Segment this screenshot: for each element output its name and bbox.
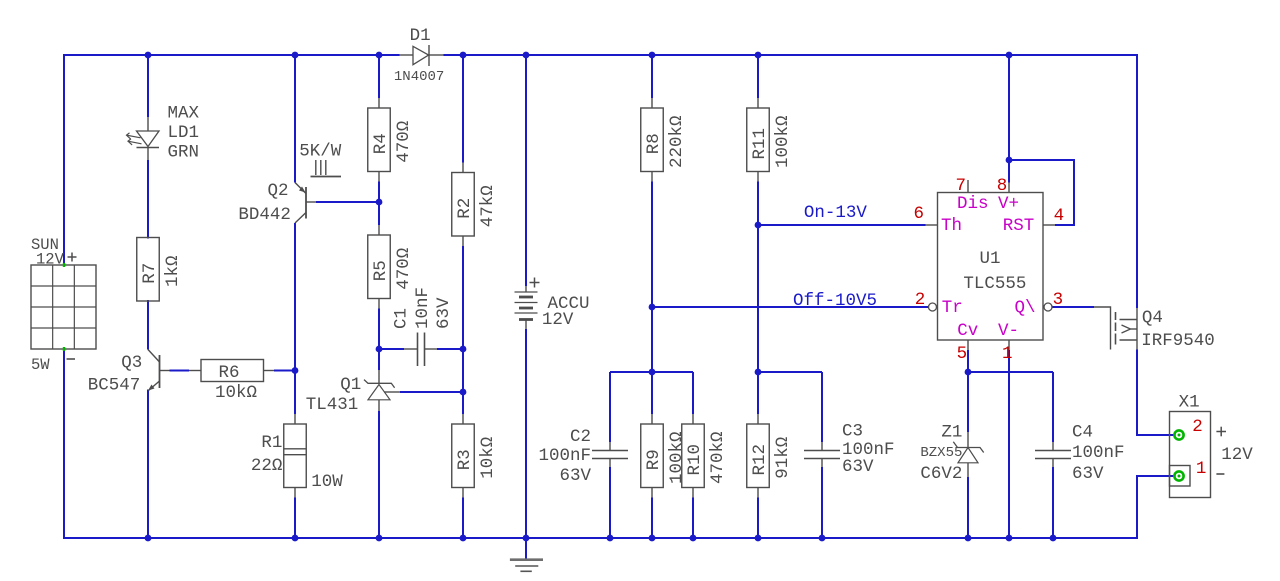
svg-text:Off-10V5: Off-10V5 [793, 291, 877, 311]
pin number 3 [1053, 290, 1064, 310]
svg-text:GRN: GRN [168, 143, 200, 163]
label LD1 [168, 123, 200, 143]
wire pin 3 to Q4 gate [1052, 306, 1094, 308]
svg-text:3: 3 [1053, 290, 1064, 310]
svg-text:Q3: Q3 [121, 353, 142, 373]
pin number 2 [915, 290, 926, 310]
svg-text:On-13V: On-13V [804, 203, 868, 223]
wire On node horizontal (R12-C3) [758, 371, 822, 373]
resistor R1 22R 10W [284, 424, 307, 488]
label 10kOhm (R6) [215, 383, 257, 403]
svg-text:100kΩ: 100kΩ [773, 115, 793, 168]
resistor R8 220k [641, 108, 687, 172]
resistor R6 10k [160, 360, 296, 382]
svg-text:47kΩ: 47kΩ [478, 185, 498, 227]
resistor R9 100k [641, 424, 687, 488]
svg-text:Tr: Tr [942, 298, 963, 318]
wire Q2 emitter from top rail [294, 55, 296, 183]
svg-text:R9: R9 [644, 449, 664, 470]
wire Z1 anode to ground rail [967, 463, 969, 538]
wire R4 to R5 / base node [378, 172, 380, 236]
svg-text:1: 1 [1002, 344, 1013, 364]
label - (panel) [67, 358, 76, 360]
svg-text:100nF: 100nF [538, 446, 591, 466]
wire On-13V net to pin 6 [758, 224, 938, 226]
label 100nF (C4) [1072, 443, 1125, 463]
wire right rail to Q4 source [1136, 54, 1138, 308]
svg-text:MAX: MAX [168, 103, 200, 123]
label 12V (X1) [1221, 445, 1253, 465]
svg-text:63V: 63V [842, 457, 874, 477]
pin number 2 (X1) [1192, 417, 1203, 437]
svg-text:V-: V- [998, 321, 1019, 341]
wire Q1 anode to ground rail [378, 411, 380, 538]
svg-text:D1: D1 [410, 26, 431, 46]
resistor R10 470k [682, 424, 728, 488]
label - (X1) [1216, 473, 1224, 475]
net label Off-10V5 [793, 291, 877, 311]
label 63V (C1) [434, 297, 454, 329]
svg-text:R1: R1 [261, 433, 282, 453]
svg-text:Q2: Q2 [268, 181, 289, 201]
label D1 [410, 26, 431, 46]
wire Cv node horizontal to C4 [968, 371, 1053, 373]
label TL431 [306, 395, 359, 415]
svg-text:R12: R12 [750, 444, 770, 476]
wire C3 branch [821, 372, 823, 538]
svg-text:R7: R7 [140, 263, 160, 284]
label ACCU [548, 294, 590, 314]
svg-text:5W: 5W [31, 356, 50, 374]
svg-text:100kΩ: 100kΩ [667, 431, 687, 484]
svg-text:LD1: LD1 [168, 123, 200, 143]
pin number 8 [997, 176, 1008, 196]
svg-text:1: 1 [1196, 459, 1207, 479]
pin name Tr [942, 298, 963, 318]
svg-text:100nF: 100nF [1072, 443, 1125, 463]
MOSFET Q4 IRF9540 [1094, 307, 1137, 350]
label + (X1) [1216, 427, 1226, 437]
op-amp U1 box [938, 193, 1044, 341]
wire R10 bottom [692, 488, 694, 539]
pin 7 stub (Dis) [967, 180, 969, 193]
svg-text:R3: R3 [455, 449, 475, 470]
label 12V (panel) [36, 251, 65, 269]
resistor R2 47k [452, 173, 498, 237]
wire R1 bottom to ground rail [294, 488, 296, 539]
svg-text:R4: R4 [371, 133, 391, 154]
pin name Th [941, 216, 962, 236]
label Q4 [1142, 308, 1163, 328]
pin bubble pin 3 (Q) [1044, 303, 1052, 311]
wire top +12V rail [63, 54, 1137, 56]
wire R7 to Q3 collector [147, 300, 149, 350]
svg-text:TLC555: TLC555 [963, 274, 1026, 294]
wire R2 top [462, 55, 464, 173]
label 100nF (C3) [842, 440, 895, 460]
pin name Cv [957, 321, 978, 341]
pin number 6 [914, 204, 925, 224]
wire Q2 base to node [306, 201, 379, 203]
svg-text:1N4007: 1N4007 [394, 69, 444, 85]
solar panel SUN [31, 263, 96, 351]
resistor R5 470R [368, 235, 414, 299]
svg-text:R5: R5 [371, 260, 391, 281]
wire Off node horizontal (C2-R9-R10) [610, 371, 693, 373]
wire left rail (solar -) [63, 349, 65, 539]
battery ACCU 12V [515, 278, 540, 330]
connector pin 2 (green) [1174, 430, 1183, 439]
label 5W [31, 356, 50, 374]
wire battery - to ground rail [525, 329, 527, 538]
label 12V (battery) [542, 310, 574, 330]
svg-text:R8: R8 [644, 133, 664, 154]
resistor R3 10k [452, 424, 498, 488]
label 63V (C3) [842, 457, 874, 477]
pin number 1 [1002, 344, 1013, 364]
wire LED cathode to R7 [147, 160, 149, 239]
svg-text:Q\: Q\ [1015, 298, 1036, 318]
svg-text:10kΩ: 10kΩ [215, 383, 257, 403]
wire Cv pin 5 to Z1 [967, 340, 969, 447]
wire R11 top [757, 55, 759, 108]
label TLC555 [963, 274, 1026, 294]
shunt regulator Q1 TL431 [364, 370, 395, 411]
svg-text:2: 2 [1192, 417, 1203, 437]
svg-text:470Ω: 470Ω [394, 248, 414, 290]
connector X1 box [1170, 412, 1211, 498]
svg-text:Th: Th [941, 216, 962, 236]
wire R4 top [378, 55, 380, 108]
svg-text:470Ω: 470Ω [394, 121, 414, 163]
LED LD1 [127, 117, 160, 160]
label + (panel) [68, 253, 77, 262]
svg-text:R2: R2 [455, 198, 475, 219]
svg-text:10W: 10W [311, 472, 343, 492]
svg-text:X1: X1 [1179, 393, 1200, 413]
svg-text:4: 4 [1054, 206, 1065, 226]
pin name Dis [957, 194, 989, 214]
resistor R11 100k [747, 108, 793, 172]
pin number 7 [956, 176, 967, 196]
svg-text:2: 2 [915, 290, 926, 310]
svg-text:5K/W: 5K/W [299, 141, 342, 161]
svg-text:220kΩ: 220kΩ [667, 115, 687, 168]
pin number 1 (X1) [1196, 459, 1207, 479]
wire X1 pin 1 to ground rail [1137, 476, 1174, 538]
svg-text:C6V2: C6V2 [920, 464, 962, 484]
label 1N4007 [394, 69, 444, 85]
diode D1 1N4007 [400, 45, 444, 66]
svg-text:63V: 63V [559, 466, 591, 486]
svg-text:12V: 12V [36, 251, 65, 269]
label C3 [842, 422, 863, 442]
svg-text:8: 8 [997, 176, 1008, 196]
svg-text:6: 6 [914, 204, 925, 224]
label MAX [168, 103, 200, 123]
svg-text:BZX55: BZX55 [920, 445, 962, 461]
svg-text:TL431: TL431 [306, 395, 359, 415]
svg-text:Dis: Dis [957, 194, 989, 214]
svg-text:Q1: Q1 [340, 375, 361, 395]
capacitor C3 [804, 451, 840, 459]
svg-text:Q4: Q4 [1142, 308, 1163, 328]
svg-text:R6: R6 [218, 363, 239, 383]
svg-text:C3: C3 [842, 422, 863, 442]
label 100nF (C2) [538, 446, 591, 466]
label 10nF (C1) [413, 287, 433, 329]
label C2 [570, 427, 591, 447]
net label On-13V [804, 203, 868, 223]
label IRF9540 [1141, 331, 1215, 351]
pin name V- [998, 321, 1019, 341]
wire bottom ground rail [63, 537, 1138, 539]
svg-text:BC547: BC547 [88, 376, 141, 396]
wire R10 top [692, 372, 694, 424]
svg-text:R11: R11 [750, 128, 770, 160]
svg-text:C4: C4 [1072, 423, 1093, 443]
svg-text:63V: 63V [1072, 464, 1104, 484]
connector pin 1 (green) [1174, 471, 1183, 480]
wire Off-10V5 net to pin 2 [652, 306, 928, 308]
wire V+ pin 8 from top rail [1008, 55, 1010, 193]
label U1 [980, 249, 1001, 269]
svg-text:91kΩ: 91kΩ [773, 437, 793, 479]
label 63V (C4) [1072, 464, 1104, 484]
label C1 [392, 308, 412, 329]
svg-text:U1: U1 [980, 249, 1001, 269]
wire R5 to C1/Q1 node [378, 299, 380, 371]
wire Q2 collector / R6 node / R1 top [294, 223, 296, 424]
svg-text:5: 5 [957, 344, 968, 364]
svg-text:BD442: BD442 [238, 205, 291, 225]
svg-text:C1: C1 [392, 308, 412, 329]
svg-text:C2: C2 [570, 427, 591, 447]
label Q1 [340, 375, 361, 395]
transistor Q3 BC547 [148, 350, 160, 391]
zener diode Z1 [953, 442, 983, 463]
wire R9 bottom [651, 488, 653, 539]
label X1 [1179, 393, 1200, 413]
svg-text:V+: V+ [998, 194, 1019, 214]
wire left rail (solar +) [63, 54, 65, 265]
label Z1 [941, 423, 962, 443]
heatsink symbol 5K/W [311, 160, 342, 177]
label 63V (C2) [559, 466, 591, 486]
label 5K/W [299, 141, 342, 161]
label 22Ohm [251, 456, 283, 476]
label GRN [168, 143, 200, 163]
ground [510, 560, 543, 572]
transistor Q2 BD442 [295, 183, 306, 224]
wire R3 bottom [462, 488, 464, 539]
capacitor C2 [592, 451, 628, 459]
svg-text:10nF: 10nF [413, 287, 433, 329]
resistor R4 470R [368, 108, 414, 172]
svg-text:R10: R10 [685, 444, 705, 476]
svg-text:470kΩ: 470kΩ [708, 431, 728, 484]
label C6V2 [920, 464, 962, 484]
svg-text:22Ω: 22Ω [251, 456, 283, 476]
wire C2 branch [609, 372, 611, 538]
svg-text:12V: 12V [542, 310, 574, 330]
resistor R7 1k [137, 238, 183, 302]
svg-text:RST: RST [1003, 216, 1035, 236]
wire battery + from top rail [525, 55, 527, 286]
label R1 [261, 433, 282, 453]
wire Q3 emitter to ground rail [147, 390, 149, 539]
pin bubble pin 2 (Tr) [929, 303, 937, 311]
wire R12 bottom [757, 488, 759, 539]
label 10W [311, 472, 343, 492]
wire V- pin 1 to ground rail [1008, 340, 1010, 538]
wire R8 to R9 (Off net) [651, 172, 653, 425]
svg-text:63V: 63V [434, 297, 454, 329]
pin name V+ [998, 194, 1019, 214]
wire C4 branch [1052, 372, 1054, 538]
capacitor C4 [1035, 451, 1071, 459]
wire ground tap [525, 538, 527, 559]
svg-text:12V: 12V [1221, 445, 1253, 465]
label R6 [218, 363, 239, 383]
wire R2 to R3 [462, 236, 464, 424]
label BZX55 [920, 445, 962, 461]
svg-text:IRF9540: IRF9540 [1141, 331, 1215, 351]
label C4 [1072, 423, 1093, 443]
label SUN [31, 236, 59, 254]
label BC547 [88, 376, 141, 396]
pin number 4 [1054, 206, 1065, 226]
wire C1 right lead [425, 348, 464, 350]
svg-text:Cv: Cv [957, 321, 978, 341]
wire R11 to R12 (On net) [757, 172, 759, 425]
svg-text:Z1: Z1 [941, 423, 962, 443]
label Q3 [121, 353, 142, 373]
wire C1 left lead [379, 348, 417, 350]
resistor R12 91k [747, 424, 793, 488]
svg-text:1kΩ: 1kΩ [163, 255, 183, 287]
wire Q1 ref to R3 node [384, 391, 463, 393]
pin name RST [1003, 216, 1035, 236]
pin number 5 [957, 344, 968, 364]
wire R8 top [651, 55, 653, 108]
svg-text:7: 7 [956, 176, 967, 196]
wire LED anode [147, 55, 149, 117]
wire Q4 drain to X1 pin 2 [1137, 350, 1174, 436]
svg-text:10kΩ: 10kΩ [478, 437, 498, 479]
label BD442 [238, 205, 291, 225]
label Q2 [268, 181, 289, 201]
wire RST loop pin 4 [1009, 160, 1074, 225]
capacitor C1 [418, 333, 425, 367]
pin name Q\ [1015, 298, 1036, 318]
